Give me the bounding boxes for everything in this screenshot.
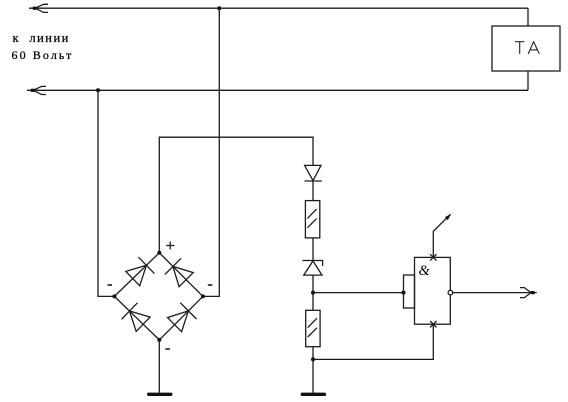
diode bridge edge L-T bbox=[114, 253, 159, 297]
label plus at bridge top bbox=[166, 242, 174, 250]
node bridge top bbox=[157, 251, 161, 255]
ground under bridge bbox=[147, 393, 173, 396]
label ampersand bbox=[419, 263, 431, 279]
wire gate top pin up bbox=[433, 214, 450, 257]
diode VD5 top of chain bbox=[305, 165, 322, 181]
svg-text:60 Вольт: 60 Вольт bbox=[12, 48, 74, 62]
diode bridge edge L-B bbox=[114, 296, 159, 340]
node lower junction bbox=[96, 88, 100, 92]
arrow left upper bbox=[33, 4, 48, 12]
label k linii 60 Volt bbox=[12, 31, 74, 62]
arrow left lower bbox=[31, 86, 46, 94]
wire diode to resistor R1 bbox=[312, 181, 314, 201]
wire gate bottom pin to node B bbox=[313, 324, 433, 359]
node bridge left bbox=[112, 294, 116, 298]
output inversion circle bbox=[448, 290, 453, 295]
svg-text:к линии: к линии bbox=[13, 31, 70, 45]
diode bridge VD2 (top-right) bbox=[165, 258, 193, 286]
wire R2 to ground bbox=[312, 347, 314, 393]
label minus at bridge right bbox=[208, 284, 213, 286]
wire R1 to zener bbox=[312, 238, 314, 261]
node bridge bottom bbox=[157, 338, 161, 342]
arrow right output bbox=[520, 288, 535, 298]
wire lower line (to line, lower) bbox=[27, 89, 528, 91]
node B (lower divider) bbox=[311, 357, 315, 361]
diode bridge edge B-R bbox=[159, 296, 203, 340]
label minus at bridge left bbox=[108, 284, 113, 286]
resistor R1 bbox=[305, 201, 319, 238]
wire gate output bbox=[453, 292, 537, 294]
pin cross bottom bbox=[430, 321, 436, 327]
wire bridge top node up and over to diode chain bbox=[159, 137, 313, 253]
pin cross top bbox=[430, 254, 436, 260]
resistor R2 bbox=[306, 310, 320, 346]
wire lower junction down to bridge left node bbox=[98, 90, 114, 296]
label TA bbox=[515, 42, 539, 54]
gate input tab bbox=[404, 275, 415, 308]
zener diode VD6 bbox=[302, 261, 322, 276]
diode bridge edge T-R bbox=[159, 253, 203, 297]
svg-text:&: & bbox=[419, 263, 431, 279]
logic gate U1 body bbox=[415, 257, 451, 324]
wire from top line down to TA box bbox=[527, 8, 529, 26]
node bridge right bbox=[201, 294, 205, 298]
wire zener to node A bbox=[312, 275, 314, 310]
wire central vertical from top junction down to bridge right node bbox=[203, 8, 219, 296]
arrowhead on diagonal bbox=[445, 214, 451, 221]
ground under chain bbox=[301, 393, 327, 396]
wire bridge bottom to ground bbox=[158, 340, 160, 393]
diode bridge VD1 (left-top) bbox=[126, 257, 155, 286]
node A (divider mid) bbox=[311, 291, 315, 295]
wire TA box bottom to lower line bbox=[527, 71, 529, 90]
box TA (telephone set) bbox=[492, 26, 560, 71]
wire top line (to line, upper) bbox=[29, 7, 528, 9]
node top junction bbox=[217, 6, 221, 10]
label minus at bridge bottom bbox=[165, 348, 170, 350]
wire node A to gate input tab bbox=[313, 292, 404, 294]
diode bridge VD4 (bottom-right) bbox=[168, 303, 197, 332]
diode bridge VD3 (bottom-left) bbox=[122, 303, 151, 332]
node at gate input tab bbox=[401, 291, 405, 295]
